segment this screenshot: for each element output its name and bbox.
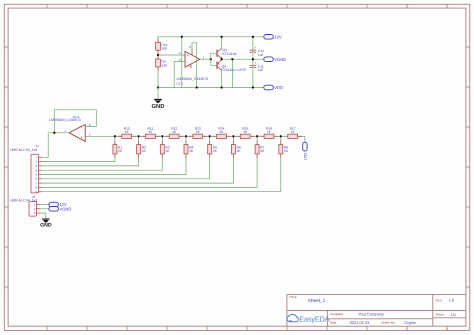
wire 12V top rail xyxy=(158,36,264,38)
wire J2 pin3 xyxy=(40,213,46,218)
junction VGND rail at C12 xyxy=(252,58,254,60)
junction top rail at V+ riser xyxy=(181,36,183,38)
title block texts xyxy=(289,296,456,325)
port VDD top xyxy=(264,85,283,90)
connector J2 xyxy=(10,195,40,216)
resistor R15 xyxy=(240,127,250,139)
wire R4 to J1 pin 5 xyxy=(42,158,186,175)
junction top rail at C12 xyxy=(252,36,254,38)
junction bottom rail at Q4 xyxy=(220,86,222,88)
wire J2 pin2 xyxy=(40,208,49,210)
port VGND J2 xyxy=(49,206,71,211)
svg-text:1/1: 1/1 xyxy=(451,312,456,317)
svg-text:A: A xyxy=(5,47,7,50)
resistor R11 xyxy=(146,127,156,139)
svg-text:1uF: 1uF xyxy=(258,68,264,72)
wire Q4 emitter xyxy=(221,59,223,60)
svg-text:B: B xyxy=(467,127,469,130)
junction bottom rail at GND xyxy=(157,86,159,88)
port 12V top xyxy=(264,34,282,39)
port VGND top xyxy=(264,57,286,62)
resistor R5 xyxy=(208,136,218,157)
resistor R12 xyxy=(169,127,179,139)
svg-text:B: B xyxy=(467,167,469,170)
wire R7 to J1 pin 8 xyxy=(42,158,258,188)
wire J2 pin1 xyxy=(40,204,49,206)
EasyEDA logo xyxy=(287,314,330,323)
wire U2.2 IN+ to ladder xyxy=(85,135,115,137)
resistor R2 xyxy=(137,136,147,157)
svg-text:Company:: Company: xyxy=(330,312,344,316)
wire R2 to J1 pin 3 xyxy=(42,158,139,166)
svg-text:Your Company: Your Company xyxy=(358,311,384,316)
svg-text:C: C xyxy=(5,207,7,210)
svg-text:TITLE:: TITLE: xyxy=(289,296,297,299)
svg-text:KTA1266-Y-AT/P: KTA1266-Y-AT/P xyxy=(222,68,247,72)
svg-text:D: D xyxy=(467,287,469,290)
svg-text:∞: ∞ xyxy=(289,318,292,323)
svg-text:KTC3199: KTC3199 xyxy=(223,52,237,56)
junction emitter node xyxy=(220,58,222,60)
junction bottom rail at V- xyxy=(196,86,198,88)
wire VGND emitter rail xyxy=(222,58,264,60)
resistor R8 xyxy=(279,136,289,157)
svg-text:Date:: Date: xyxy=(330,321,337,325)
wire R8 to J1 pin 9 xyxy=(42,158,281,192)
svg-text:GND: GND xyxy=(40,223,52,229)
wire VDD bottom rail xyxy=(158,87,264,89)
svg-text:Sheet:: Sheet: xyxy=(436,313,445,317)
svg-text:C: C xyxy=(5,247,7,250)
transistor Q1 xyxy=(217,48,237,58)
svg-text:A: A xyxy=(467,87,469,90)
svg-text:VGND: VGND xyxy=(274,57,286,62)
wire Q1 collector xyxy=(221,37,223,49)
svg-text:GND: GND xyxy=(152,103,165,110)
resistor R3 xyxy=(160,136,170,157)
connector J1 xyxy=(10,144,41,194)
svg-text:Drawn By:: Drawn By: xyxy=(381,321,395,325)
port OUT vertical xyxy=(303,142,307,161)
svg-text:LM358AN_C434570: LM358AN_C434570 xyxy=(49,118,81,122)
op-amp U2.2 xyxy=(49,115,90,141)
resistor R16 xyxy=(264,127,274,139)
junction ladder node 7 xyxy=(256,135,258,137)
wire VGND return xyxy=(231,59,233,87)
svg-text:Sheet_1: Sheet_1 xyxy=(308,298,326,303)
wire base join xyxy=(211,53,217,65)
wire divider tap to op-amp IN+ xyxy=(158,54,185,56)
capacitor C12 xyxy=(250,37,264,59)
wire R6 to J1 pin 7 xyxy=(42,158,234,183)
resistor R6 xyxy=(231,136,241,157)
junction ladder node 6 xyxy=(232,135,234,137)
port 12V J2 xyxy=(49,202,67,207)
title block grid xyxy=(287,294,466,326)
svg-text:1.0: 1.0 xyxy=(449,298,455,303)
junction ladder node 4 xyxy=(185,135,187,137)
junction U2.2 output node xyxy=(53,132,55,134)
wire op-amp output xyxy=(200,58,211,60)
svg-text:B: B xyxy=(5,127,7,130)
svg-text:Crypto: Crypto xyxy=(404,320,415,325)
resistor R1 xyxy=(113,136,123,157)
capacitor C11 xyxy=(250,59,264,87)
wire R3 to J1 pin 4 xyxy=(42,158,163,171)
svg-text:+: + xyxy=(187,53,189,57)
junction output node xyxy=(210,58,212,60)
svg-text:+: + xyxy=(255,61,257,65)
resistor R10 xyxy=(122,127,132,139)
svg-text:1uF: 1uF xyxy=(258,53,264,57)
junction ladder node 5 xyxy=(209,135,211,137)
svg-text:2021-02-24: 2021-02-24 xyxy=(350,320,371,325)
wire IN- feedback left leg xyxy=(174,62,185,88)
svg-text:+: + xyxy=(255,46,257,50)
resistor R9 xyxy=(156,59,168,67)
wire U2.2 output xyxy=(42,133,69,158)
junction top rail at Q1 xyxy=(220,36,222,38)
resistor R14 xyxy=(217,127,227,139)
op-amp U2.1 xyxy=(177,45,209,85)
svg-text:C: C xyxy=(467,247,469,250)
svg-text:U2.1: U2.1 xyxy=(177,82,184,86)
wire R5 to J1 pin 6 xyxy=(42,158,210,179)
resistor R18 xyxy=(156,42,168,50)
svg-text:OUT: OUT xyxy=(303,153,307,162)
wire feedback loop U2.2 xyxy=(54,110,96,133)
svg-text:VDD: VDD xyxy=(274,85,283,90)
svg-text:12V: 12V xyxy=(274,34,282,39)
svg-text:A: A xyxy=(467,47,469,50)
junction ladder node 1 xyxy=(114,135,116,137)
resistor R17 xyxy=(288,127,298,139)
transistor Q4 xyxy=(217,60,247,72)
svg-text:10K: 10K xyxy=(161,47,168,51)
junction bottom rail at C11 xyxy=(252,86,254,88)
junction ladder node 2 xyxy=(137,135,139,137)
resistor R13 xyxy=(193,127,203,139)
wire ladder bus xyxy=(115,135,281,137)
ground GND bottom xyxy=(40,219,52,229)
junction VGND rail at return xyxy=(231,58,233,60)
svg-text:HDR-M-2.54_1x9: HDR-M-2.54_1x9 xyxy=(10,148,37,152)
svg-text:+: + xyxy=(81,135,83,139)
ground GND top xyxy=(152,88,165,111)
resistor R4 xyxy=(184,136,194,157)
svg-text:REV:: REV: xyxy=(436,299,443,303)
wire Q1 emitter to node xyxy=(221,57,223,60)
svg-text:LM358AN_C434570: LM358AN_C434570 xyxy=(177,77,209,81)
junction ladder node 3 xyxy=(161,135,163,137)
wire op-amp V+ riser xyxy=(181,37,183,88)
junction ladder node 8 xyxy=(280,135,282,137)
svg-text:D: D xyxy=(5,287,7,290)
svg-text:10K: 10K xyxy=(161,63,168,67)
svg-text:A: A xyxy=(5,87,7,90)
junction divider tap xyxy=(157,54,159,56)
svg-text:VGND: VGND xyxy=(60,206,72,211)
svg-text:C: C xyxy=(467,207,469,210)
resistor R7 xyxy=(255,136,265,157)
svg-text:B: B xyxy=(5,167,7,170)
wire R1 to J1 pin 2 xyxy=(42,158,115,162)
wire divider chain xyxy=(157,39,159,71)
wire R17 to port xyxy=(281,136,305,142)
wire Q4 collector xyxy=(221,70,223,87)
svg-text:EasyEDA: EasyEDA xyxy=(299,315,329,324)
wire output to V+ loop xyxy=(192,43,197,88)
